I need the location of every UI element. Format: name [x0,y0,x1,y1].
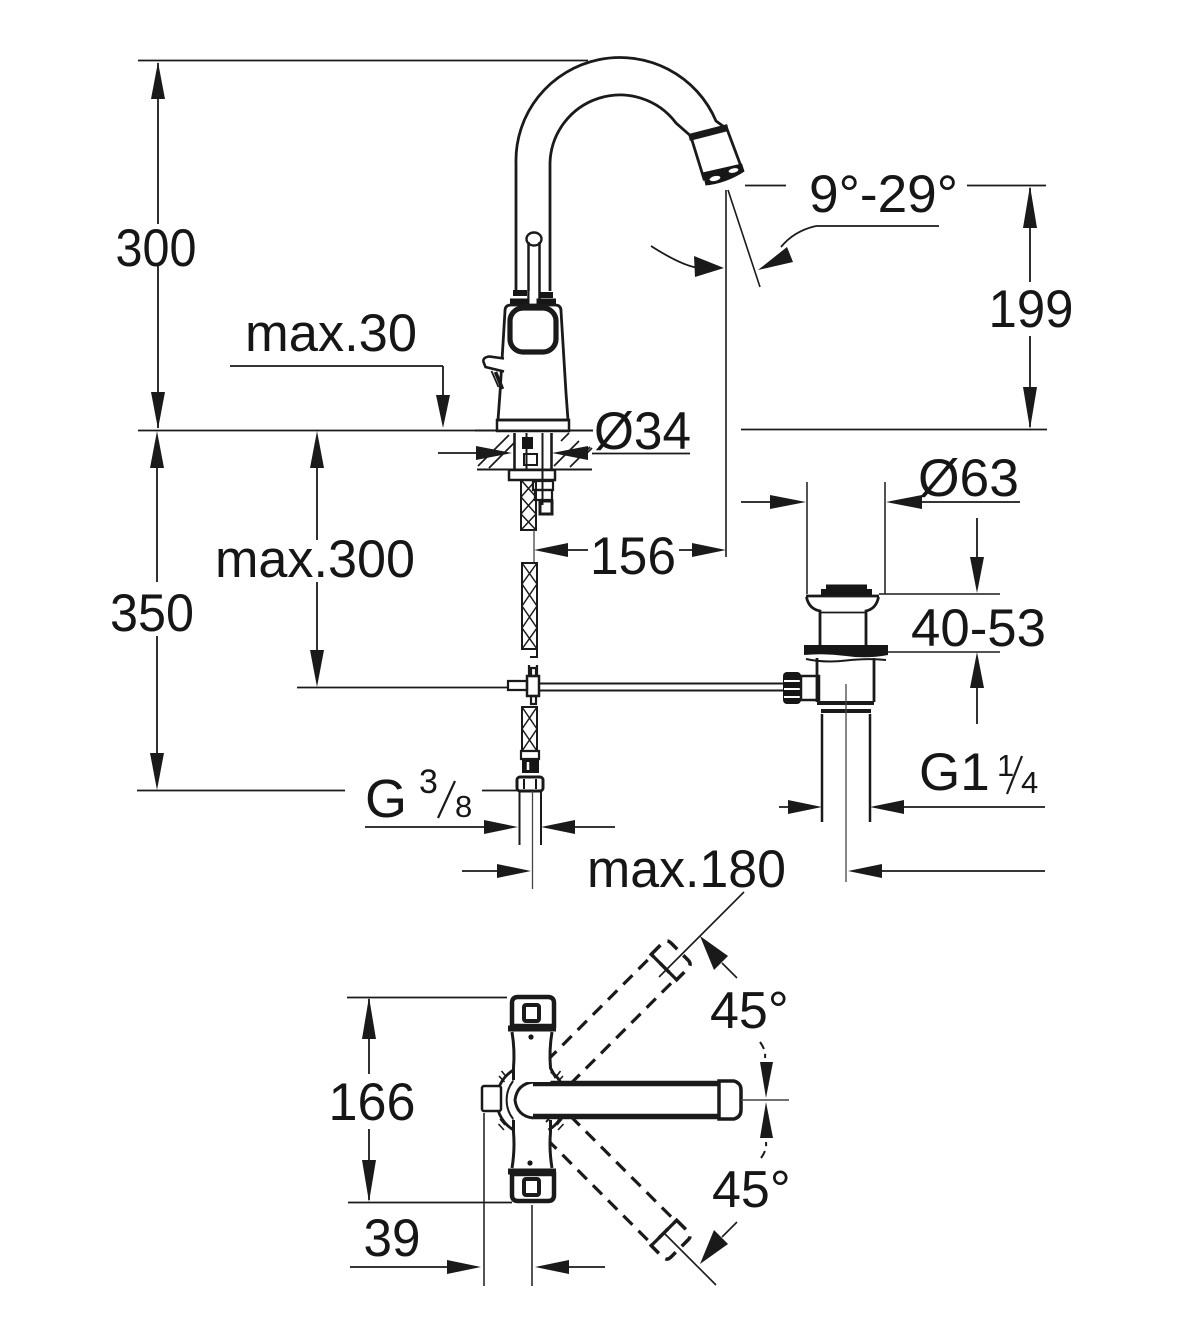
supply hose segment 1 [521,480,536,530]
faucet spout outer contour [516,58,727,291]
svg-text:39: 39 [364,1209,421,1268]
dimension max.30 [230,304,450,428]
cartridge collar band [513,290,553,298]
svg-text:max.30: max.30 [245,304,417,363]
drain flange [806,596,879,645]
drain rubber seal [804,645,888,657]
svg-text:1: 1 [997,748,1014,783]
deck reference line right [741,429,1047,431]
dimension 199 [989,186,1074,429]
dimension 39 [350,1113,605,1286]
converging arrows at axis [741,1062,789,1138]
rosette mask [498,1067,564,1133]
horizontal pop-up rod [539,684,784,691]
faucet body [497,305,569,431]
dimension max.300 [215,431,507,688]
knurled adjuster knob [783,672,819,704]
pop-up rod tee [508,668,539,704]
rosette outer circle arcs [497,1070,566,1130]
swivel axis extension lower [664,1233,716,1285]
dimension G 3/8 [365,763,615,834]
dimension G1 1/4 [779,743,1045,814]
lever handle ring [510,308,556,352]
dimension 156 [534,527,726,586]
swivel axis extension upper [659,892,744,977]
dimension diameter 63 [741,449,1020,594]
svg-text:156: 156 [590,527,676,586]
dimension 40-53 [879,518,1046,724]
drain plug knob [821,585,872,597]
hose end connector [521,751,539,773]
svg-text:199: 199 [989,280,1074,339]
swivel arc arrow upper [700,936,737,978]
svg-text:G: G [365,769,407,829]
svg-text:45°: 45° [712,1161,791,1219]
angle arc left arrow [651,246,724,277]
dimension 166 [329,997,513,1203]
faucet spout inner contour [550,95,693,291]
left wall tab [482,1086,501,1111]
G3/8 connection nut [517,777,543,791]
threaded shank below deck [515,433,552,505]
supply hose segment 3 [522,707,537,751]
body bottom cap [508,1172,556,1202]
dimension 350 [110,431,517,791]
deck reference line left [138,430,475,432]
spray direction vertical line [725,190,727,557]
body neck lower [512,1118,552,1168]
svg-text:40-53: 40-53 [911,599,1046,658]
svg-text:350: 350 [110,584,194,643]
spout nozzle [689,128,745,186]
drain body [817,658,874,711]
svg-text:45°: 45° [710,982,789,1040]
arc stub upper [760,1042,765,1058]
rosette inner arcs [507,1078,556,1122]
svg-text:G1: G1 [919,743,990,802]
fitting block right [533,481,553,514]
dimension 300 [116,62,197,429]
svg-text:8: 8 [455,789,472,824]
dimension 9-29 degrees [745,165,1046,270]
body neck upper [512,1032,556,1082]
swivel arc arrow lower [700,1222,737,1264]
side lever [483,357,504,390]
svg-text:300: 300 [116,219,197,278]
faucet center line below [532,791,534,889]
pop-up stem rod on top [527,233,542,302]
drain tailpipe [822,714,870,822]
top reference line [138,60,588,62]
hose connector above tee [529,665,537,676]
mounting nut [509,470,555,480]
dimension max.180 [462,840,1045,899]
svg-text:max.180: max.180 [587,840,786,899]
svg-text:166: 166 [329,1073,416,1132]
body top cap [508,997,556,1029]
spray direction angled line [728,190,760,287]
dashed swivel spout upper 45 [531,939,692,1100]
svg-text:4: 4 [1021,765,1038,800]
counter deck with hatching [475,431,593,470]
dashed swivel spout lower 45 [531,1100,692,1261]
supply hose segment 2 [522,563,537,657]
spout bar top view [514,1081,741,1119]
svg-text:3: 3 [419,763,438,801]
svg-text:Ø63: Ø63 [918,449,1019,508]
svg-text:9°-29°: 9°-29° [809,165,958,224]
G3/8 pipe [520,791,542,845]
svg-text:Ø34: Ø34 [594,402,691,461]
center line segment [533,530,535,562]
svg-text:max.300: max.300 [215,530,415,589]
arc stub lower [761,1142,766,1158]
dimension diameter 34 [438,402,691,461]
drain center line [845,684,847,882]
